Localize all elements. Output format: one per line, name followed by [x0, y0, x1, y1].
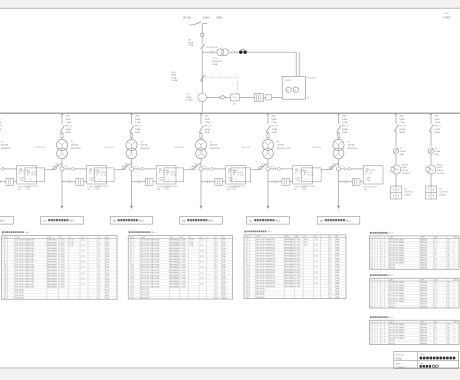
svg-text:MCCB 3P: MCCB 3P: [141, 292, 150, 294]
svg-text:16: 16: [131, 281, 133, 283]
svg-text:MCCB 3P 50A EL: MCCB 3P 50A EL: [389, 331, 405, 334]
feeder T5 right MCCB box: [363, 166, 383, 184]
svg-text:B1: B1: [204, 166, 206, 168]
series reactor SR SC1: [392, 165, 401, 174]
svg-text:18: 18: [131, 286, 133, 288]
svg-text:BW50EAG: BW50EAG: [170, 272, 180, 275]
svg-text:BW50EAG: BW50EAG: [170, 252, 180, 255]
ZCT diamond: [219, 96, 226, 100]
svg-text:BW50EAG: BW50EAG: [285, 246, 295, 249]
svg-text:2.2: 2.2: [434, 343, 437, 345]
svg-text:6: 6: [131, 253, 132, 255]
svg-text:MCCB 3P 50AT ELB2: MCCB 3P 50AT ELB2: [256, 252, 275, 255]
svg-text:64: 64: [294, 90, 296, 92]
svg-text:2.2kW: 2.2kW: [180, 278, 186, 280]
feeder T5 lower element: [352, 179, 360, 186]
svg-text:BW50EAG: BW50EAG: [285, 252, 295, 255]
svg-text:17: 17: [247, 283, 249, 285]
svg-text:G75A: G75A: [399, 128, 405, 131]
svg-text:MCCB 3P 50A EL: MCCB 3P 50A EL: [389, 256, 405, 259]
svg-text:2.0: 2.0: [329, 283, 332, 285]
svg-text:BW50EAG: BW50EAG: [285, 282, 295, 285]
svg-text:22: 22: [131, 297, 133, 299]
feeder T4 left MCCB box: [231, 168, 251, 182]
svg-text:40kA: 40kA: [342, 131, 347, 134]
svg-text:1: 1: [382, 306, 383, 308]
terminal element: [266, 95, 272, 100]
svg-text:2.0: 2.0: [215, 297, 218, 299]
svg-text:2.0: 2.0: [98, 295, 101, 297]
svg-text:2.2kW: 2.2kW: [180, 267, 186, 269]
svg-text:2.0: 2.0: [215, 292, 218, 294]
svg-text:BW50EAG: BW50EAG: [48, 269, 58, 272]
svg-text:BW50EAG: BW50EAG: [48, 277, 58, 280]
svg-text:2.0: 2.0: [215, 295, 218, 297]
feeder T1 CT to left branch: [53, 163, 62, 170]
svg-text:MCCB 3P 50AT ELB2: MCCB 3P 50AT ELB2: [15, 275, 34, 278]
svg-text:MCCB 3P: MCCB 3P: [15, 292, 24, 294]
svg-text:BW50EAG: BW50EAG: [48, 261, 58, 264]
svg-text:60: 60: [448, 285, 450, 287]
svg-text:1: 1: [371, 282, 372, 284]
wire: [271, 96, 282, 98]
svg-text:BW50EAG: BW50EAG: [285, 279, 295, 282]
svg-text:2.2kW: 2.2kW: [295, 244, 301, 246]
svg-text:BW50EAG: BW50EAG: [48, 272, 58, 275]
svg-text:MCCB 3P 50AT ELB2: MCCB 3P 50AT ELB2: [141, 266, 160, 269]
svg-text:2.0: 2.0: [215, 251, 218, 253]
svg-text:1: 1: [382, 290, 383, 292]
svg-text:14: 14: [5, 276, 7, 278]
svg-text:2.0: 2.0: [329, 239, 332, 241]
svg-text:10: 10: [247, 264, 249, 266]
svg-text:6.6kV: 6.6kV: [402, 167, 408, 169]
svg-text:MCCB 3P 50AT ELB2: MCCB 3P 50AT ELB2: [15, 241, 34, 244]
svg-text:PF x 3: PF x 3: [271, 126, 278, 128]
feeder SC2 contactor 52: [428, 148, 434, 154]
svg-text:7: 7: [131, 256, 132, 258]
svg-text:MCCB 3P 50AT ELB2: MCCB 3P 50AT ELB2: [15, 250, 34, 253]
svg-text:BW50E: BW50E: [421, 301, 428, 303]
svg-text:BW50EAG: BW50EAG: [285, 257, 295, 260]
svg-text:BW50E: BW50E: [421, 340, 428, 342]
svg-text:G75A: G75A: [434, 128, 440, 131]
svg-text:BW50EAG: BW50EAG: [170, 280, 180, 283]
svg-text:EL: EL: [304, 236, 306, 238]
svg-text:PF x 3: PF x 3: [135, 126, 142, 128]
svg-text:2.0: 2.0: [329, 253, 332, 255]
svg-text:3: 3: [371, 329, 372, 331]
svg-text:60: 60: [448, 301, 450, 303]
arrester LA: [231, 94, 240, 101]
svg-text:2.0: 2.0: [329, 242, 332, 244]
svg-text:14: 14: [247, 275, 249, 277]
svg-text:2.2kW: 2.2kW: [59, 240, 65, 242]
feeder T1 lower branch wire: [62, 181, 68, 183]
svg-text:MCCB 3P 50AT ELB2: MCCB 3P 50AT ELB2: [15, 269, 34, 272]
svg-text:2.0: 2.0: [215, 253, 218, 255]
svg-text:12: 12: [247, 269, 249, 271]
svg-text:8: 8: [371, 301, 372, 303]
svg-text:300kVA: 300kVA: [277, 144, 285, 147]
svg-text:60: 60: [448, 340, 450, 342]
svg-text:10: 10: [371, 306, 373, 308]
svg-text:1: 1: [382, 329, 383, 331]
svg-text:MCCB: MCCB: [23, 170, 29, 172]
svg-text:40kA: 40kA: [65, 131, 70, 134]
svg-text:2.0: 2.0: [329, 269, 332, 271]
svg-text:6605-1400: 6605-1400: [242, 147, 251, 149]
svg-text:MCCB 3P: MCCB 3P: [256, 294, 265, 296]
svg-text:2.2kW: 2.2kW: [180, 259, 186, 261]
svg-text:No.1: No.1: [389, 275, 393, 277]
svg-text:2.0: 2.0: [98, 262, 101, 264]
svg-text:0.75: 0.75: [200, 245, 204, 247]
feeder T4 lower branch wire: [268, 181, 274, 183]
svg-text:7: 7: [371, 340, 372, 342]
svg-text:SR 6-3: SR 6-3: [437, 164, 443, 166]
feeder T4 right branch wire: [270, 168, 274, 170]
svg-text:MCCB 3P 50AT ELB2: MCCB 3P 50AT ELB2: [15, 263, 34, 266]
svg-text:No.1: No.1: [389, 317, 393, 319]
svg-text:BW50EAG: BW50EAG: [285, 268, 295, 271]
svg-text:1: 1: [131, 240, 132, 242]
svg-text:2.0: 2.0: [215, 284, 218, 286]
svg-text:6600/210V: 6600/210V: [140, 148, 151, 150]
svg-text:6.6kV: 6.6kV: [437, 167, 443, 169]
svg-text:BW50EAG: BW50EAG: [170, 285, 180, 288]
svg-text:18: 18: [247, 286, 249, 288]
svg-text:2.0: 2.0: [329, 256, 332, 258]
svg-text:0.75: 0.75: [81, 251, 85, 253]
svg-text:5: 5: [371, 293, 372, 295]
svg-text:MCCB 3P 50AT ELB2: MCCB 3P 50AT ELB2: [141, 239, 160, 242]
svg-text:BW50EAG: BW50EAG: [285, 260, 295, 263]
feeder T2 panel label box: [110, 216, 153, 224]
svg-text:PF-LA 600A: PF-LA 600A: [206, 46, 217, 49]
svg-text:9: 9: [131, 262, 132, 264]
svg-text:16: 16: [247, 280, 249, 282]
feeder SC2 wire: [430, 132, 432, 147]
svg-text:40kA: 40kA: [204, 131, 209, 134]
svg-text:20: 20: [247, 291, 249, 293]
svg-text:BW50E: BW50E: [421, 306, 428, 308]
panel schedule table T4 no1: [370, 232, 372, 234]
svg-text:1: 1: [382, 285, 383, 287]
svg-text:2.2kW: 2.2kW: [180, 256, 186, 258]
svg-text:60: 60: [448, 338, 450, 340]
svg-text:1Φ3W 210-105V: 1Φ3W 210-105V: [164, 185, 178, 188]
feeder SC2 LBS switch: [429, 125, 433, 132]
svg-text:BW50EAG: BW50EAG: [48, 266, 58, 269]
svg-text:BW50EAG: BW50EAG: [170, 266, 180, 269]
svg-text:LBS: LBS: [399, 116, 404, 118]
svg-text:500kVA: 500kVA: [71, 144, 79, 147]
svg-text:8: 8: [131, 259, 132, 261]
svg-text:MCCB 3P 50AT ELB2: MCCB 3P 50AT ELB2: [15, 261, 34, 264]
svg-text:2.0: 2.0: [98, 264, 101, 266]
svg-text:0.75: 0.75: [81, 273, 85, 275]
feeder T5 drop wire: [338, 113, 340, 124]
svg-text:B1: B1: [342, 166, 344, 168]
svg-text:x 8: x 8: [29, 179, 31, 181]
feeder T2 LBS switch with PF: [130, 125, 134, 132]
svg-text:4: 4: [247, 247, 248, 249]
svg-text:22: 22: [5, 298, 7, 300]
feeder T1 meter element: [1, 167, 6, 170]
svg-text:MCCB 3P 50A EL: MCCB 3P 50A EL: [389, 328, 405, 331]
wire: [201, 36, 203, 44]
svg-text:17: 17: [131, 284, 133, 286]
metering tap wire: [202, 51, 210, 53]
svg-text:BW50EAG: BW50EAG: [285, 255, 295, 258]
svg-text:0.75: 0.75: [314, 261, 318, 263]
svg-text:2.2kW: 2.2kW: [295, 250, 301, 252]
svg-text:0.75: 0.75: [314, 278, 318, 280]
svg-text:MCCB 3P 50AT ELB2: MCCB 3P 50AT ELB2: [256, 243, 275, 246]
svg-text:6600/210V: 6600/210V: [1, 148, 12, 150]
svg-text:175AT: 175AT: [295, 179, 300, 182]
CT tick pair: [210, 51, 212, 54]
svg-text:6.6kV 3Φ: 6.6kV 3Φ: [439, 191, 448, 194]
svg-text:3: 3: [131, 245, 132, 247]
svg-text:7.2kA: 7.2kA: [188, 44, 194, 47]
svg-text:22: 22: [247, 297, 249, 299]
svg-text:60: 60: [448, 327, 450, 329]
wire: [229, 51, 232, 53]
svg-text:225AF: 225AF: [228, 176, 233, 179]
svg-text:BW50EAG: BW50EAG: [170, 239, 180, 242]
svg-text:0.75: 0.75: [314, 244, 318, 246]
svg-text:MCCB 3P 50AT ELB2: MCCB 3P 50AT ELB2: [256, 257, 275, 260]
feeder SC2 wire: [430, 154, 432, 165]
svg-text:60: 60: [448, 343, 450, 345]
transformer T1: [56, 139, 67, 150]
svg-text:BW50EAG: BW50EAG: [48, 250, 58, 253]
feeder T1 main drop: [61, 171, 63, 206]
svg-text:TYPE: TYPE: [170, 237, 174, 239]
transformer T4: [262, 139, 273, 150]
svg-text:BW50EAG: BW50EAG: [285, 266, 295, 269]
svg-text:PF x 3: PF x 3: [342, 126, 349, 128]
svg-text:G40A: G40A: [342, 128, 348, 131]
feeder SC1 wire: [395, 174, 397, 186]
svg-text:40kA: 40kA: [271, 131, 276, 134]
feeder T2 lower CT ticks: [137, 180, 139, 183]
svg-text:0.75: 0.75: [200, 262, 204, 264]
svg-text:7: 7: [371, 298, 372, 300]
svg-text:BW50EAG: BW50EAG: [285, 263, 295, 266]
svg-text:BW50EAG: BW50EAG: [170, 258, 180, 261]
svg-text:BW50EAG: BW50EAG: [285, 241, 295, 244]
feeder T1 lower CT ticks: [68, 180, 70, 183]
svg-text:1: 1: [382, 298, 383, 300]
svg-text:1: 1: [382, 340, 383, 342]
svg-text:BW50EAG: BW50EAG: [170, 277, 180, 280]
svg-text:2.2kW: 2.2kW: [180, 248, 186, 250]
svg-text:6600/210-105V: 6600/210-105V: [277, 148, 292, 150]
svg-text:MCCB 3P 50AT ELB2: MCCB 3P 50AT ELB2: [141, 285, 160, 288]
svg-text:MCCB 3P: MCCB 3P: [15, 289, 24, 291]
svg-text:BW50E: BW50E: [421, 288, 428, 290]
svg-text:BW50EAG: BW50EAG: [170, 263, 180, 266]
svg-text:2.2kW: 2.2kW: [180, 262, 186, 264]
svg-text:5: 5: [131, 251, 132, 253]
svg-text:20: 20: [5, 292, 7, 294]
svg-text:2.2kW: 2.2kW: [295, 280, 301, 282]
title block frame: [394, 352, 459, 369]
svg-text:MCCB 3P 50A EL: MCCB 3P 50A EL: [389, 337, 405, 340]
svg-text:14: 14: [131, 275, 133, 277]
feeder T4 main drop: [267, 171, 269, 206]
svg-text:18: 18: [5, 287, 7, 289]
svg-text:BW50EAG: BW50EAG: [48, 247, 58, 250]
svg-text:MCCB 3P 50AT ELB2: MCCB 3P 50AT ELB2: [15, 244, 34, 247]
svg-text:BW50EAG: BW50EAG: [285, 277, 295, 280]
feeder T1 right MCCB box: [87, 166, 107, 184]
panel schedule table T4 no2: [370, 274, 372, 276]
svg-text:2.0: 2.0: [329, 289, 332, 291]
svg-text:2.2kW: 2.2kW: [59, 273, 65, 275]
svg-text:2.0: 2.0: [98, 281, 101, 283]
svg-text:2.2kW: 2.2kW: [59, 267, 65, 269]
svg-text:200A: 200A: [204, 118, 210, 121]
svg-text:6600/210V: 6600/210V: [210, 148, 221, 150]
feeder T3 main drop: [200, 171, 202, 206]
svg-text:2.2kW: 2.2kW: [180, 281, 186, 283]
svg-text:MCCB 3P 50AT ELB2: MCCB 3P 50AT ELB2: [15, 239, 34, 242]
service entrance slash: [194, 22, 202, 25]
svg-text:DATE: DATE: [396, 362, 402, 365]
svg-text:PF x 3: PF x 3: [204, 126, 211, 128]
feeder T5 CT ticks: [344, 168, 346, 171]
svg-text:BW50E: BW50E: [421, 296, 428, 298]
svg-text:60: 60: [448, 290, 450, 292]
svg-text:1Φ3W 210-105V: 1Φ3W 210-105V: [302, 185, 316, 188]
feeder T5 secondary junction B: [336, 167, 340, 171]
svg-text:PF x 3: PF x 3: [399, 126, 406, 128]
svg-text:19kVar: 19kVar: [437, 170, 443, 172]
svg-text:B1: B1: [135, 166, 137, 168]
svg-text:E-501: E-501: [396, 358, 403, 360]
svg-text:2.2kW: 2.2kW: [59, 264, 65, 266]
feeder T3 meter element: [210, 167, 215, 170]
svg-text:-M: -M: [307, 98, 310, 100]
svg-text:2.2kW: 2.2kW: [295, 256, 301, 258]
svg-text:2.2kW: 2.2kW: [180, 270, 186, 272]
feeder T5 lower branch wire: [339, 181, 345, 183]
svg-text:10: 10: [5, 264, 7, 266]
svg-text:No: No: [247, 236, 249, 238]
svg-text:60: 60: [448, 296, 450, 298]
svg-text:BW50EAG: BW50EAG: [285, 271, 295, 274]
svg-text:1: 1: [382, 327, 383, 329]
svg-text:11: 11: [247, 267, 249, 269]
svg-text:3P 50A: 3P 50A: [170, 174, 177, 177]
svg-text:2.0: 2.0: [329, 244, 332, 246]
svg-text:2.0: 2.0: [215, 256, 218, 258]
svg-text:19: 19: [131, 289, 133, 291]
svg-text:2.0: 2.0: [98, 259, 101, 261]
svg-text:ST: ST: [329, 236, 331, 238]
svg-text:0.75: 0.75: [81, 245, 85, 247]
feeder T5 lower CT ticks: [344, 180, 346, 183]
svg-text:6605-1200: 6605-1200: [105, 147, 114, 149]
svg-text:2.2kW: 2.2kW: [59, 248, 65, 250]
svg-text:21: 21: [131, 295, 133, 297]
svg-text:1: 1: [382, 282, 383, 284]
feeder T4 CT to left branch: [259, 163, 268, 170]
svg-text:2.2: 2.2: [434, 268, 437, 270]
svg-text:2.2kW: 2.2kW: [180, 284, 186, 286]
svg-text:PF x 3: PF x 3: [434, 126, 441, 128]
svg-text:2.2kW: 2.2kW: [59, 253, 65, 255]
svg-text:2.0: 2.0: [215, 270, 218, 272]
svg-text:MCCB 3P 50AT ELB2: MCCB 3P 50AT ELB2: [141, 277, 160, 280]
feeder T5 main drop: [338, 171, 340, 206]
svg-text:TITLE: TITLE: [420, 354, 426, 356]
svg-text:MCCB 3P 50AT ELB2: MCCB 3P 50AT ELB2: [256, 241, 275, 244]
svg-text:MCCB 3P 50AT ELB2: MCCB 3P 50AT ELB2: [141, 250, 160, 253]
feeder T3 panel label box: [180, 216, 223, 224]
svg-text:BW50EAG: BW50EAG: [48, 283, 58, 286]
svg-text:2.2kW: 2.2kW: [295, 242, 301, 244]
svg-text:MCCB 3P 50AT ELB2: MCCB 3P 50AT ELB2: [256, 274, 275, 277]
svg-text:2.2: 2.2: [434, 290, 437, 292]
svg-text:2.0: 2.0: [215, 267, 218, 269]
svg-text:2.2: 2.2: [434, 293, 437, 295]
svg-text:MCCB 3P 50AT ELB2: MCCB 3P 50AT ELB2: [256, 268, 275, 271]
svg-text:60: 60: [448, 329, 450, 331]
svg-text:BW50EAG: BW50EAG: [48, 280, 58, 283]
sheet top border: [0, 7, 460, 9]
svg-text:6.3kA: 6.3kA: [400, 150, 406, 153]
wire: [263, 96, 265, 98]
svg-text:MCCB 3P 50A EL: MCCB 3P 50A EL: [389, 281, 405, 284]
svg-text:2.2: 2.2: [434, 285, 437, 287]
wire to bus: [201, 102, 203, 113]
svg-text:BW50E: BW50E: [421, 285, 428, 287]
svg-text:MCCB 3P 50AT ELB2: MCCB 3P 50AT ELB2: [15, 286, 34, 289]
svg-text:MCCB 3P: MCCB 3P: [15, 298, 24, 300]
svg-text:1: 1: [5, 240, 6, 242]
svg-text:MCCB 3P 50AT ELB2: MCCB 3P 50AT ELB2: [256, 238, 275, 241]
svg-text:7.2kA: 7.2kA: [399, 121, 405, 124]
feeder T4 lower CT ticks: [274, 180, 276, 183]
svg-text:MCCB 3P: MCCB 3P: [141, 295, 150, 297]
svg-text:2.2kW: 2.2kW: [295, 275, 301, 277]
feeder T4 secondary junction B: [266, 167, 270, 171]
svg-text:MCCB 3P: MCCB 3P: [256, 289, 265, 291]
svg-text:2.0: 2.0: [329, 272, 332, 274]
feeder T5 meter element: [347, 167, 352, 170]
svg-text:MCCB 3P 50AT ELB2: MCCB 3P 50AT ELB2: [256, 263, 275, 266]
svg-text:2.2: 2.2: [434, 301, 437, 303]
svg-text:2.2kW: 2.2kW: [295, 239, 301, 241]
svg-text:2.2kW: 2.2kW: [59, 262, 65, 264]
svg-text:MCCB 3P 50AT ELB2: MCCB 3P 50AT ELB2: [15, 258, 34, 261]
svg-text:200A: 200A: [342, 118, 348, 121]
svg-text:MCCB 3P 50AT ELB2: MCCB 3P 50AT ELB2: [141, 252, 160, 255]
6.6kV main bus: [0, 112, 460, 114]
svg-text:x 8: x 8: [168, 179, 170, 181]
svg-text:BW50E: BW50E: [421, 290, 428, 292]
svg-text:2.0: 2.0: [98, 273, 101, 275]
svg-text:MCCB: MCCB: [389, 268, 395, 270]
svg-text:BW50EAG: BW50EAG: [170, 241, 180, 244]
feeder T1 meter element: [71, 167, 76, 170]
svg-text:BW50EAG: BW50EAG: [170, 255, 180, 258]
